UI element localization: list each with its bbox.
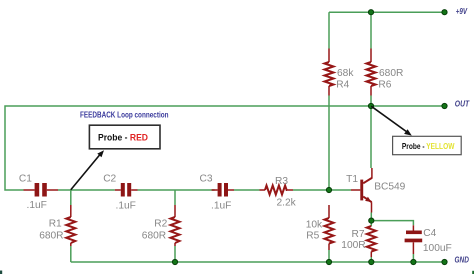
wire R5 bottom [328, 250, 330, 262]
wire OUT feedback loop [5, 106, 445, 190]
bottom-right corner mark [472, 271, 474, 274]
svg-text:680R: 680R [142, 231, 166, 242]
svg-text:R2: R2 [154, 219, 167, 230]
node emitter junction [369, 218, 374, 223]
node GND R2 [172, 259, 177, 264]
capacitor C4 [405, 225, 423, 254]
probe RED box [89, 125, 160, 149]
node GND end [442, 259, 447, 264]
svg-text:R3: R3 [275, 176, 288, 187]
svg-text:.1uF: .1uF [211, 201, 231, 212]
node OUT end [442, 103, 447, 108]
wire R2 bottom [174, 246, 176, 262]
svg-text:680R: 680R [39, 231, 63, 242]
svg-text:R1: R1 [49, 219, 62, 230]
node R4/R5 base bias [326, 187, 331, 192]
resistor R4 [325, 49, 334, 96]
svg-text:680R: 680R [379, 68, 403, 79]
transistor T1 [351, 168, 372, 213]
svg-text:+9V: +9V [456, 7, 468, 16]
svg-text:100uF: 100uF [423, 243, 452, 254]
wire C1 to C2 [58, 189, 115, 191]
svg-text:BC549: BC549 [374, 182, 405, 193]
wire R1 column [70, 190, 72, 205]
wire C2 to C3 [138, 189, 215, 191]
node GND R5 [326, 259, 331, 264]
resistor R5 [325, 205, 334, 250]
bottom-left corner mark [0, 271, 2, 274]
svg-text:T1: T1 [346, 174, 358, 185]
node +9V end [442, 10, 447, 15]
resistor R7 [367, 226, 376, 257]
wire GND rail [71, 261, 445, 263]
wire R6 column top [370, 12, 372, 48]
wire R7 bottom [370, 257, 372, 262]
wire R4 column top [328, 12, 330, 48]
wire R7 top [370, 221, 372, 226]
svg-text:R5: R5 [306, 231, 319, 242]
capacitor C3 [212, 183, 234, 197]
node GND R7 [369, 259, 374, 264]
svg-text:R6: R6 [378, 80, 391, 91]
svg-text:R7: R7 [352, 229, 365, 240]
wire R2 column [174, 190, 176, 205]
svg-text:10k: 10k [306, 220, 323, 231]
wire R6 column bottom [370, 96, 372, 107]
wire collector column [370, 106, 372, 168]
wire emitter to C4 [371, 221, 413, 226]
resistor R6 [367, 49, 376, 96]
svg-text:100R: 100R [341, 240, 365, 251]
svg-text:C3: C3 [200, 174, 213, 185]
svg-text:C2: C2 [103, 174, 116, 185]
svg-text:FEEDBACK Loop connection: FEEDBACK Loop connection [80, 111, 169, 120]
svg-text:Probe - RED: Probe - RED [98, 133, 148, 144]
node GND C4 [411, 259, 416, 264]
svg-text:2.2k: 2.2k [277, 198, 297, 209]
wire R4 column bottom [328, 96, 330, 191]
capacitor C1 [24, 183, 59, 197]
svg-text:GND: GND [455, 255, 469, 264]
svg-text:C4: C4 [423, 228, 436, 239]
node OUT / collector [368, 103, 373, 108]
wire C3 to R3 [234, 189, 260, 191]
wire emitter column [370, 213, 372, 221]
wire +9V rail [329, 11, 445, 13]
resistor R1 [66, 205, 75, 246]
wire R1 bottom [70, 246, 72, 262]
svg-text:R4: R4 [336, 80, 349, 91]
node +9V rail / R6 [368, 10, 373, 15]
capacitor C2 [115, 183, 138, 197]
resistor R3 [260, 186, 294, 195]
wire R3 to T1 base [293, 189, 351, 191]
svg-text:.1uF: .1uF [116, 201, 136, 212]
probe YELLOW arrow [371, 106, 407, 132]
svg-text:.1uF: .1uF [27, 200, 47, 211]
probe RED arrow [71, 155, 100, 190]
svg-text:Probe - YELLOW: Probe - YELLOW [402, 141, 455, 151]
wire C4 bottom [412, 254, 414, 262]
svg-text:68k: 68k [337, 68, 354, 79]
svg-text:C1: C1 [19, 174, 32, 185]
resistor R2 [171, 205, 180, 246]
probe YELLOW box [393, 136, 462, 154]
svg-text:OUT: OUT [455, 99, 470, 108]
